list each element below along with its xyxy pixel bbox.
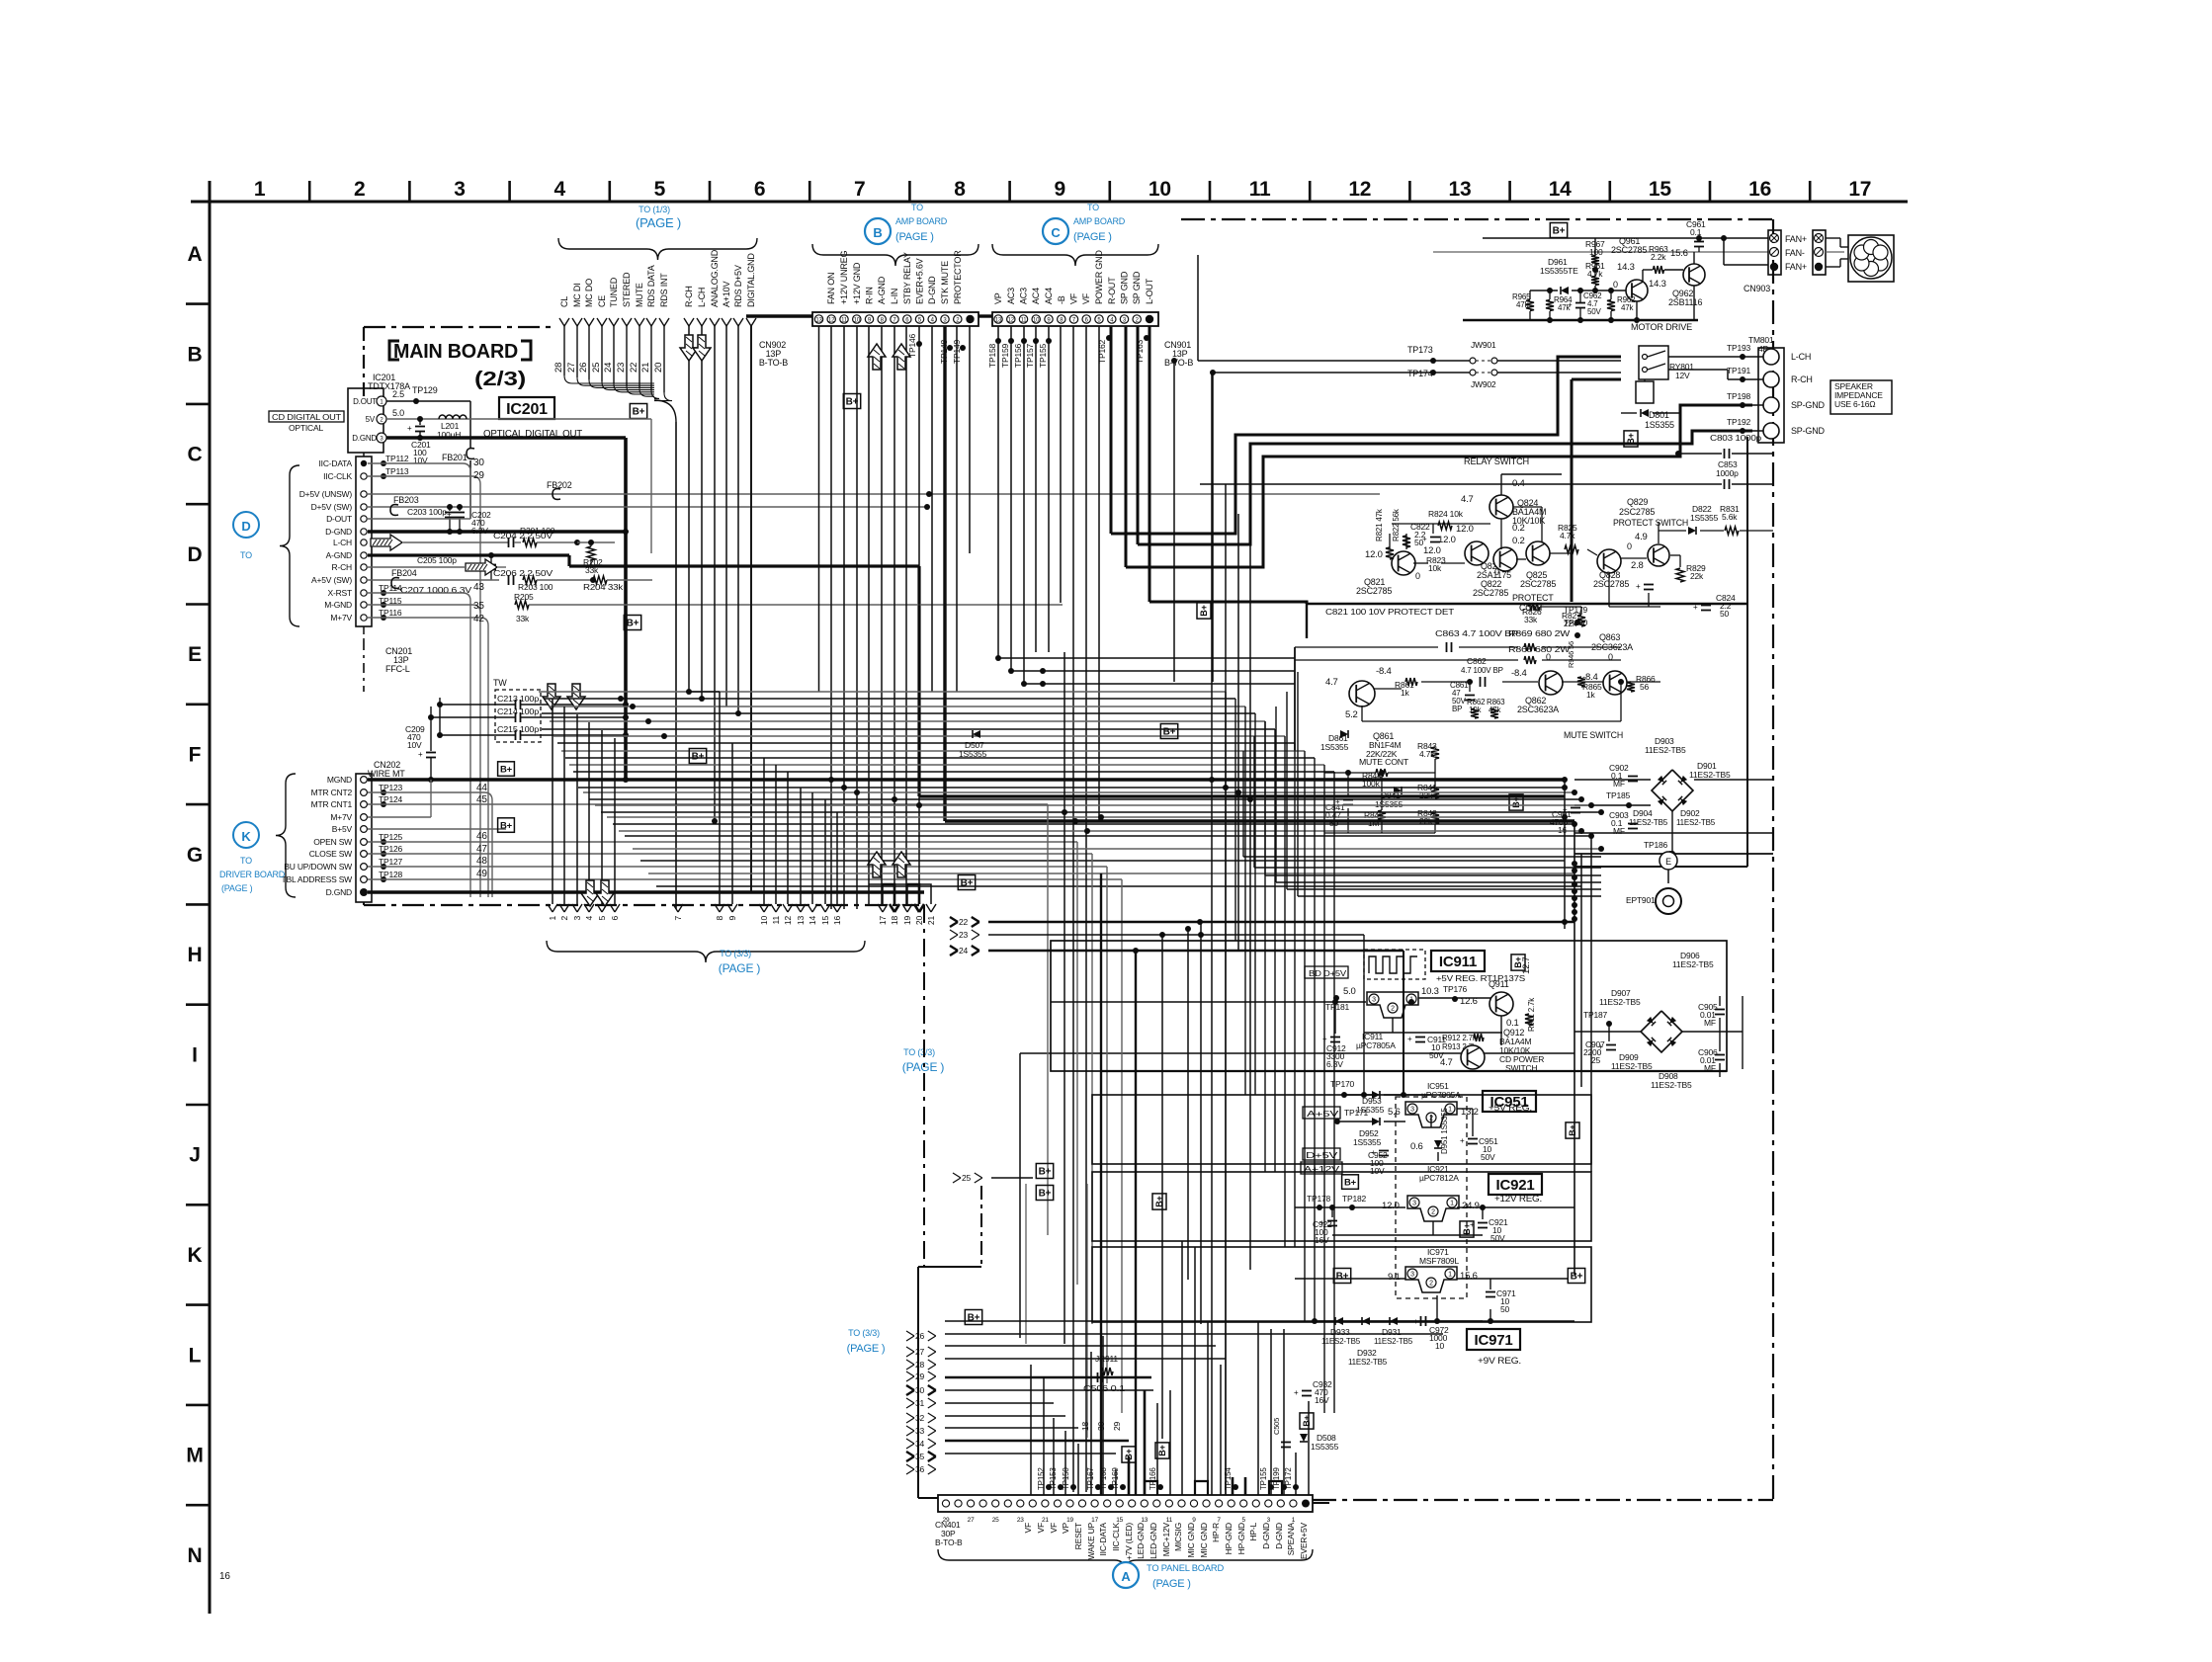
svg-text:B+: B+ bbox=[846, 397, 859, 408]
IC921 wires bbox=[1295, 1206, 1405, 1208]
C201 cap 100 10V bbox=[419, 419, 421, 425]
svg-text:D+5V: D+5V bbox=[1306, 1150, 1338, 1160]
wire corner link bbox=[1265, 874, 1601, 876]
second mute transistor bbox=[1603, 671, 1627, 695]
svg-text:11ES2-TB5: 11ES2-TB5 bbox=[1645, 745, 1686, 755]
svg-text:RDS D+5V: RDS D+5V bbox=[733, 265, 743, 307]
IC911 boxed designator bbox=[1431, 951, 1485, 971]
svg-text:SP GND: SP GND bbox=[1132, 271, 1142, 304]
svg-text:2SC2785: 2SC2785 bbox=[1619, 507, 1655, 517]
svg-text:MOTOR DRIVE: MOTOR DRIVE bbox=[1631, 322, 1692, 333]
Q824 transistor bbox=[1489, 495, 1513, 519]
svg-text:46: 46 bbox=[476, 831, 487, 842]
chevron 30 bbox=[906, 1385, 914, 1390]
IC951 regulator bbox=[1405, 1102, 1457, 1127]
svg-text:12.0: 12.0 bbox=[1456, 524, 1474, 535]
IC921 regulator bbox=[1407, 1196, 1459, 1221]
BU UP/DOWN SW 48 bbox=[368, 866, 1107, 868]
svg-text:29: 29 bbox=[473, 470, 484, 481]
D952 diode bbox=[1372, 1118, 1380, 1125]
CN902 pin 12 bbox=[827, 315, 835, 323]
R-CH row bbox=[466, 559, 497, 575]
svg-text:M: M bbox=[186, 1445, 203, 1467]
svg-text:2SC2785: 2SC2785 bbox=[1520, 579, 1556, 589]
C213-215 wires to D-GND net bbox=[440, 704, 515, 706]
CN901 pin 4 bbox=[1108, 315, 1116, 323]
dashed regulator group box bbox=[1396, 1097, 1467, 1298]
svg-text:AMP BOARD: AMP BOARD bbox=[895, 216, 948, 226]
svg-text:0: 0 bbox=[1627, 541, 1632, 551]
svg-text:TO: TO bbox=[240, 856, 252, 866]
chevron 33 bbox=[906, 1426, 914, 1431]
svg-text:9: 9 bbox=[1192, 1517, 1196, 1524]
svg-text:5: 5 bbox=[597, 916, 607, 921]
svg-text:D-OUT: D-OUT bbox=[326, 514, 352, 524]
gnd hook bridges bbox=[1145, 1481, 1157, 1495]
C912 3300 6.3V bbox=[1330, 1037, 1340, 1039]
border ruler top line bbox=[191, 201, 1908, 204]
brace CN902 bbox=[812, 244, 978, 266]
X-RST M-GND M+7V rows bbox=[368, 592, 463, 594]
bundle elbows merging bbox=[564, 375, 654, 383]
BD D+5V box bbox=[1305, 966, 1348, 978]
CN401 pin 25 bbox=[1252, 1500, 1259, 1507]
svg-text:1k: 1k bbox=[1586, 690, 1596, 700]
svg-text:47k: 47k bbox=[1621, 303, 1634, 312]
svg-text:14: 14 bbox=[808, 916, 817, 926]
svg-text:SP GND: SP GND bbox=[1120, 271, 1130, 304]
svg-text:IC911: IC911 bbox=[1439, 954, 1477, 970]
A+10V vertical bbox=[725, 326, 727, 706]
svg-text:4.7: 4.7 bbox=[1325, 677, 1338, 688]
CN401 pin 14 bbox=[1116, 1500, 1123, 1507]
svg-text:C506 0.1: C506 0.1 bbox=[1083, 1383, 1126, 1393]
CN902 pin 8 bbox=[878, 315, 886, 323]
svg-text:+12V UNREG: +12V UNREG bbox=[839, 251, 849, 304]
svg-text:MICSIG: MICSIG bbox=[1173, 1523, 1183, 1551]
svg-text:11: 11 bbox=[841, 318, 848, 324]
svg-text:8: 8 bbox=[954, 178, 966, 201]
svg-text:EPT901: EPT901 bbox=[1626, 895, 1656, 905]
R-CH vertical bbox=[688, 326, 690, 692]
svg-text:0: 0 bbox=[1494, 567, 1499, 577]
svg-text:12: 12 bbox=[1348, 178, 1371, 201]
CD DIGITAL OUT box label bbox=[269, 411, 344, 422]
B+ rotated above CN401 bbox=[1122, 1447, 1136, 1462]
svg-text:50V: 50V bbox=[1481, 1152, 1495, 1162]
chevrons 10-16 bbox=[763, 758, 765, 904]
svg-text:+5V REG. RT1P137S: +5V REG. RT1P137S bbox=[1436, 973, 1526, 983]
svg-text:5.2: 5.2 bbox=[1345, 709, 1358, 720]
AC horizontals to protect bbox=[998, 657, 1295, 659]
svg-text:LED-GND: LED-GND bbox=[1149, 1523, 1158, 1559]
Q962 transistor bbox=[1683, 264, 1705, 286]
MTR CNT1 45 bbox=[368, 803, 1048, 805]
svg-text:14: 14 bbox=[1549, 178, 1572, 201]
M+7V wire bbox=[368, 816, 431, 818]
svg-text:C: C bbox=[1051, 225, 1061, 240]
Q912 CD power switch bbox=[1461, 1045, 1485, 1069]
svg-text:TO (3/3): TO (3/3) bbox=[720, 949, 751, 958]
CN401 pin 24 bbox=[1240, 1500, 1247, 1507]
A+5V box bbox=[1303, 1107, 1340, 1119]
junction dot column bbox=[1572, 861, 1577, 867]
svg-text:MF: MF bbox=[1613, 826, 1625, 836]
CN401 pin 29 bbox=[1302, 1500, 1310, 1508]
OPEN SW 46 bbox=[368, 841, 1077, 843]
svg-text:TP157: TP157 bbox=[1025, 343, 1035, 368]
svg-text:(PAGE ): (PAGE ) bbox=[1152, 1578, 1191, 1590]
svg-text:D: D bbox=[188, 543, 203, 566]
svg-text:10: 10 bbox=[1149, 178, 1171, 201]
svg-text:AC4: AC4 bbox=[1044, 288, 1054, 304]
fan icon wires bbox=[1826, 237, 1840, 239]
svg-text:WIRE MT: WIRE MT bbox=[368, 769, 405, 779]
svg-text:21: 21 bbox=[1042, 1517, 1049, 1524]
svg-text:FAN ON: FAN ON bbox=[826, 273, 836, 304]
svg-text:1S5355: 1S5355 bbox=[1645, 420, 1674, 430]
brace bundle 1/3 bbox=[558, 238, 757, 260]
wire trunk bbox=[589, 798, 1581, 800]
svg-text:45: 45 bbox=[476, 794, 487, 805]
svg-text:C203 100p: C203 100p bbox=[407, 507, 447, 517]
svg-text:13: 13 bbox=[1141, 1517, 1148, 1524]
svg-text:MIC GND: MIC GND bbox=[1186, 1523, 1196, 1557]
wire trunk bbox=[573, 771, 1334, 773]
svg-text:50V: 50V bbox=[1429, 1050, 1444, 1060]
CN401 pin 10 bbox=[1066, 1500, 1073, 1507]
TBL ADDRESS SW 49 bbox=[368, 878, 1122, 880]
Q961 base line bbox=[1595, 290, 1626, 291]
hollow up arrows above chevrons bbox=[868, 852, 886, 877]
svg-text:(PAGE ): (PAGE ) bbox=[1073, 231, 1112, 243]
hollow down arrows TW bbox=[543, 684, 560, 709]
TW801 terminal SP-GND bbox=[1763, 423, 1779, 439]
svg-text:TP149: TP149 bbox=[952, 339, 962, 364]
svg-text:6.3V: 6.3V bbox=[1326, 1059, 1343, 1069]
B+5V wire and B+ boxes bbox=[368, 828, 506, 830]
svg-text:D933: D933 bbox=[1330, 1327, 1350, 1337]
svg-text:OPEN SW: OPEN SW bbox=[313, 837, 352, 847]
R205 33k bbox=[515, 601, 529, 609]
CN401 pin 0 bbox=[942, 1500, 949, 1507]
svg-text:JW901: JW901 bbox=[1471, 340, 1496, 350]
svg-text:SP-GND: SP-GND bbox=[1791, 426, 1826, 436]
svg-text:BP: BP bbox=[1452, 705, 1462, 713]
svg-text:R-CH: R-CH bbox=[684, 286, 694, 307]
svg-text:13: 13 bbox=[796, 916, 806, 926]
svg-text:MUTE CONT: MUTE CONT bbox=[1359, 757, 1408, 767]
svg-text:B+: B+ bbox=[1336, 1272, 1349, 1283]
svg-text:1S5355: 1S5355 bbox=[1320, 742, 1349, 752]
D-OUT wire bbox=[368, 518, 470, 520]
IC971 section box bbox=[1092, 1247, 1591, 1322]
svg-text:1: 1 bbox=[254, 178, 266, 201]
wire corner link bbox=[1298, 895, 1601, 897]
svg-text:MUTE: MUTE bbox=[635, 283, 644, 307]
TW801 terminal L-CH bbox=[1763, 349, 1779, 365]
svg-text:L-CH: L-CH bbox=[697, 288, 707, 307]
svg-text:34: 34 bbox=[915, 1439, 925, 1449]
svg-text:D-GND: D-GND bbox=[325, 527, 352, 537]
svg-text:TP198: TP198 bbox=[1727, 391, 1751, 401]
CN902 connector box bbox=[812, 312, 978, 326]
wire trunk bbox=[601, 811, 1601, 813]
svg-text:28: 28 bbox=[915, 1360, 925, 1370]
CN902 pin 1 bbox=[966, 315, 974, 323]
svg-text:4.9: 4.9 bbox=[1635, 532, 1648, 542]
CN902 pin 6 bbox=[903, 315, 911, 323]
svg-text:+12V REG.: +12V REG. bbox=[1494, 1194, 1542, 1204]
wire 5V net gray bbox=[386, 418, 651, 420]
svg-text:0.6: 0.6 bbox=[1410, 1141, 1423, 1152]
svg-text:11ES2-TB5: 11ES2-TB5 bbox=[1672, 959, 1714, 969]
svg-text:12.0: 12.0 bbox=[1365, 549, 1383, 560]
svg-text:OPTICAL: OPTICAL bbox=[289, 423, 323, 433]
thick speaker route R-OUT bbox=[1111, 357, 1621, 534]
svg-text:TP129: TP129 bbox=[412, 385, 438, 395]
B+ rotated near bridge bbox=[1509, 794, 1523, 810]
D841 1S5355 bbox=[1394, 787, 1402, 794]
svg-text:+: + bbox=[447, 510, 452, 519]
wire trunk bbox=[648, 873, 1574, 874]
L-CH vertical bbox=[701, 326, 703, 699]
right bus verticals bbox=[1564, 780, 1566, 929]
svg-text:D801: D801 bbox=[1649, 410, 1669, 420]
svg-text:47: 47 bbox=[476, 844, 487, 855]
B+ fan bbox=[1550, 223, 1567, 238]
relay coil bbox=[1636, 381, 1654, 403]
brace TO 3/3 bottom bbox=[547, 941, 865, 962]
svg-text:TP171: TP171 bbox=[1344, 1108, 1369, 1118]
svg-text:1S5355: 1S5355 bbox=[1375, 799, 1404, 809]
DIGITAL.GND vertical bbox=[750, 326, 752, 892]
svg-text:8: 8 bbox=[715, 916, 724, 921]
CN902 pin 13 bbox=[814, 315, 822, 323]
thick speaker route SP GND bbox=[1126, 405, 1752, 567]
CN901 connector box bbox=[992, 312, 1158, 326]
IC911 wires bbox=[1051, 1001, 1366, 1003]
C951 10 50V bbox=[1468, 1138, 1478, 1140]
svg-text:23: 23 bbox=[616, 363, 627, 373]
CN903 connector bbox=[1768, 230, 1781, 275]
ANALOG.GND vertical bbox=[714, 326, 716, 820]
svg-text:36: 36 bbox=[915, 1464, 925, 1474]
IC951 section box bbox=[1092, 1095, 1591, 1164]
svg-text:11: 11 bbox=[1249, 178, 1271, 201]
svg-text:17: 17 bbox=[878, 916, 888, 926]
CN401 pin 11 bbox=[1078, 1500, 1085, 1507]
CN901 pin 8 bbox=[1058, 315, 1065, 323]
D+5V UNSW long wire FB202 bbox=[368, 493, 1380, 495]
svg-text:A-GND: A-GND bbox=[326, 550, 352, 560]
svg-text:D+5V (SW): D+5V (SW) bbox=[311, 502, 353, 512]
svg-text:R-CH: R-CH bbox=[1791, 374, 1813, 384]
rectifier wires bbox=[1574, 779, 1651, 781]
TO AMP BOARD circled C blue bbox=[1043, 218, 1068, 244]
svg-text:+: + bbox=[1322, 1035, 1327, 1043]
svg-text:TP113: TP113 bbox=[385, 466, 409, 476]
svg-text:TP155: TP155 bbox=[1259, 1467, 1268, 1490]
svg-text:STERED: STERED bbox=[622, 272, 632, 307]
L201 inductor 100uH bbox=[439, 415, 467, 419]
R202 33k bbox=[587, 546, 595, 560]
CN902 pin 3 bbox=[941, 315, 949, 323]
svg-text:3: 3 bbox=[1267, 1517, 1271, 1524]
B+ rotated IC911 bbox=[1511, 955, 1525, 970]
svg-text:L-IN: L-IN bbox=[890, 289, 899, 304]
svg-text:TP178: TP178 bbox=[1307, 1194, 1331, 1204]
IC951 boxed designator bbox=[1483, 1091, 1536, 1112]
svg-text:L-OUT: L-OUT bbox=[1145, 278, 1154, 304]
svg-text:35: 35 bbox=[473, 601, 484, 612]
IC921 boxed designator bbox=[1489, 1174, 1542, 1195]
svg-text:G: G bbox=[187, 844, 203, 867]
svg-text:TP199: TP199 bbox=[1272, 1467, 1281, 1490]
svg-text:FAN+: FAN+ bbox=[1785, 262, 1807, 272]
svg-text:R822 56k: R822 56k bbox=[1392, 508, 1401, 541]
svg-text:16: 16 bbox=[1558, 825, 1568, 835]
svg-text:K: K bbox=[188, 1244, 203, 1267]
svg-text:R203 100: R203 100 bbox=[518, 582, 553, 592]
svg-text:+9V REG.: +9V REG. bbox=[1478, 1356, 1521, 1366]
svg-text:1S5355: 1S5355 bbox=[1690, 513, 1719, 523]
Q861 mute transistor bbox=[1349, 681, 1375, 706]
svg-text:10.3: 10.3 bbox=[1421, 986, 1439, 997]
wire trunk bbox=[656, 885, 1581, 887]
thick wire right of CN401 bbox=[1313, 1502, 1329, 1504]
svg-text:11ES2-TB5: 11ES2-TB5 bbox=[1374, 1337, 1413, 1346]
svg-text:AC4: AC4 bbox=[1031, 288, 1041, 304]
svg-text:28: 28 bbox=[553, 363, 564, 373]
B+ label optical bbox=[630, 404, 646, 419]
svg-text:D951 1S5355: D951 1S5355 bbox=[1440, 1108, 1449, 1154]
svg-text:5.6: 5.6 bbox=[1388, 1107, 1401, 1118]
svg-text:4.7k: 4.7k bbox=[1419, 749, 1435, 759]
D508 1S5355 bbox=[1300, 1434, 1308, 1442]
svg-text:0.1: 0.1 bbox=[1690, 227, 1702, 237]
B+ boxes near chevron 25 bbox=[1036, 1164, 1053, 1179]
chevron 24 thick bbox=[950, 946, 958, 951]
mute cont wires bbox=[1324, 772, 1376, 774]
svg-text:B+: B+ bbox=[627, 619, 639, 629]
IC921 section box bbox=[1092, 1172, 1591, 1241]
CN902 pin 7 bbox=[891, 315, 898, 323]
svg-text:R-OUT: R-OUT bbox=[1107, 277, 1117, 304]
C932 470 16V bbox=[1302, 1390, 1312, 1392]
svg-text:20: 20 bbox=[653, 363, 664, 373]
svg-text:31: 31 bbox=[915, 1398, 925, 1408]
svg-text:A: A bbox=[188, 243, 203, 266]
dash outline below chevrons bbox=[923, 905, 925, 1267]
svg-text:+: + bbox=[1422, 535, 1427, 543]
svg-text:43: 43 bbox=[473, 582, 484, 593]
wire trunk bbox=[553, 735, 1285, 737]
wire trunk bbox=[565, 757, 1315, 759]
CN902 pin 9 bbox=[865, 315, 873, 323]
D901 bridge bbox=[1652, 770, 1693, 811]
optical connector CN box bbox=[348, 388, 383, 453]
CN901 descending wires bbox=[997, 326, 999, 658]
svg-text:42: 42 bbox=[473, 614, 484, 624]
svg-text:20: 20 bbox=[914, 916, 924, 926]
svg-text:C863 4.7 100V BP: C863 4.7 100V BP bbox=[1435, 629, 1518, 638]
wire corner link bbox=[1276, 881, 1601, 883]
chevron col 1-6 verticals bbox=[552, 699, 553, 904]
svg-text:+: + bbox=[1598, 1042, 1603, 1051]
svg-text:FB203: FB203 bbox=[393, 495, 419, 505]
svg-text:26: 26 bbox=[578, 363, 589, 373]
border ruler left line bbox=[209, 181, 212, 1614]
svg-text:TP182: TP182 bbox=[1342, 1194, 1367, 1204]
svg-text:27: 27 bbox=[915, 1347, 925, 1357]
svg-text:24.9: 24.9 bbox=[1462, 1201, 1480, 1211]
svg-text:MC DO: MC DO bbox=[584, 279, 594, 307]
svg-text:HP-L: HP-L bbox=[1248, 1523, 1258, 1541]
svg-text:MIC+12V: MIC+12V bbox=[1161, 1522, 1171, 1556]
wire trunk bbox=[539, 691, 1226, 693]
wire drop bbox=[1225, 692, 1227, 1495]
svg-text:TP187: TP187 bbox=[1583, 1010, 1608, 1020]
svg-text:RESET: RESET bbox=[1073, 1523, 1083, 1549]
thick speaker route SP GND 2 bbox=[1138, 431, 1752, 544]
wire trunk bbox=[625, 835, 1591, 837]
svg-text:10: 10 bbox=[759, 916, 769, 926]
hatched down arrows near D.GND bbox=[581, 880, 599, 906]
B+ scattered mid bbox=[689, 749, 706, 764]
svg-text:PROTECTOR: PROTECTOR bbox=[953, 250, 963, 304]
svg-text:33k: 33k bbox=[516, 614, 530, 623]
svg-text:(PAGE ): (PAGE ) bbox=[895, 231, 934, 243]
svg-text:R869 680 2W: R869 680 2W bbox=[1508, 629, 1571, 638]
svg-text:16: 16 bbox=[219, 1571, 230, 1582]
wire trunk bbox=[542, 712, 1255, 714]
wire trunk bbox=[633, 848, 1601, 850]
brace D section bbox=[280, 465, 299, 626]
svg-text:5.0: 5.0 bbox=[392, 408, 404, 418]
chevron 28 bbox=[906, 1360, 914, 1365]
svg-text:30: 30 bbox=[915, 1385, 925, 1395]
svg-text:A+5V: A+5V bbox=[1307, 1109, 1339, 1119]
svg-text:2.2k: 2.2k bbox=[1651, 252, 1666, 262]
svg-text:C214 100p: C214 100p bbox=[497, 707, 540, 716]
wire drop bbox=[1323, 765, 1325, 1413]
svg-text:5.6k: 5.6k bbox=[1722, 512, 1738, 522]
svg-text:TP174: TP174 bbox=[1407, 369, 1433, 378]
svg-text:48: 48 bbox=[476, 856, 487, 867]
svg-text:4.7: 4.7 bbox=[1461, 494, 1474, 505]
svg-text:R821 47k: R821 47k bbox=[1375, 508, 1384, 541]
wire trunk bbox=[607, 816, 1565, 818]
svg-text:14.3: 14.3 bbox=[1617, 262, 1635, 273]
svg-text:C862: C862 bbox=[1467, 656, 1487, 666]
svg-text:DRIVER BOARD: DRIVER BOARD bbox=[219, 870, 286, 879]
svg-text:15.6: 15.6 bbox=[1670, 248, 1688, 259]
svg-text:4: 4 bbox=[584, 916, 594, 921]
svg-text:CLOSE SW: CLOSE SW bbox=[309, 849, 352, 859]
svg-text:MTR CNT2: MTR CNT2 bbox=[311, 788, 353, 797]
chevron 35 bbox=[906, 1452, 914, 1456]
svg-text:VF: VF bbox=[1036, 1523, 1046, 1533]
svg-text:2.8: 2.8 bbox=[1631, 560, 1644, 571]
svg-text:TP166: TP166 bbox=[1149, 1467, 1157, 1490]
svg-text:D: D bbox=[241, 519, 250, 534]
wire trunk bbox=[619, 830, 1581, 832]
svg-text:C803 1000p: C803 1000p bbox=[1710, 433, 1762, 443]
CN901 pin 9 bbox=[1045, 315, 1053, 323]
svg-text:R912 2.7k: R912 2.7k bbox=[1442, 1034, 1478, 1042]
wire drop bbox=[1304, 751, 1306, 1322]
